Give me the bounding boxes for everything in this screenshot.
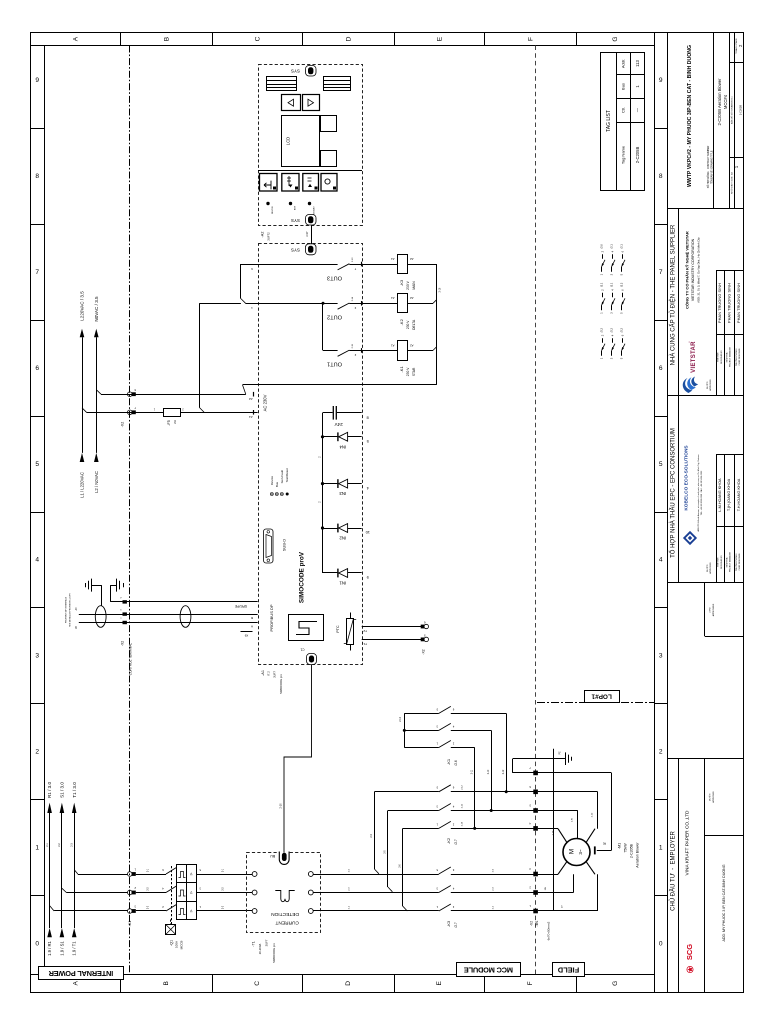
svg-text:A: A <box>73 981 80 986</box>
circuit breaker Q1 trip units <box>162 865 201 920</box>
title block drawing title <box>717 78 728 126</box>
svg-text:/2.2: /2.2 <box>620 282 624 287</box>
label A2 <box>261 232 271 241</box>
motor M1 <box>558 829 595 875</box>
svg-text:113: 113 <box>635 59 640 66</box>
svg-text:2-SY: 2-SY <box>306 231 309 237</box>
connector SYS top of A1 <box>291 244 316 255</box>
svg-text:5: 5 <box>35 461 39 468</box>
thermistor PTC <box>336 613 356 651</box>
svg-text:-M1: -M1 <box>618 843 622 849</box>
employer address <box>722 864 726 941</box>
svg-text:A2: A2 <box>249 397 253 401</box>
svg-text:/7.2: /7.2 <box>267 671 271 676</box>
svg-text:7: 7 <box>659 269 663 276</box>
svg-text:2-10: 2-10 <box>553 830 555 835</box>
svg-text:1: 1 <box>659 844 663 851</box>
svg-text:G: G <box>612 981 619 986</box>
motor M1 labels <box>618 842 640 868</box>
svg-text:-K1: -K1 <box>399 366 404 373</box>
svg-text:L220VAC / 3.5: L220VAC / 3.5 <box>80 291 85 321</box>
control supply L220VAC arrow to 3.5 <box>80 291 85 338</box>
svg-text:CHỦ ĐẦU TƯ - EMPLOYER: CHỦ ĐẦU TƯ - EMPLOYER <box>669 830 676 910</box>
svg-text:3UF7: 3UF7 <box>265 939 269 946</box>
side border number bands 9-0 <box>31 77 668 947</box>
wire T1 tap to X1 <box>74 870 127 875</box>
wire U1 V1 W1 to motor <box>538 874 598 911</box>
wire PROFIBUS B <box>75 607 258 620</box>
svg-text:M: M <box>569 849 576 854</box>
svg-text:2-13: 2-13 <box>352 257 354 262</box>
svg-text:A2: A2 <box>410 296 414 300</box>
svg-text:T.(H.)OANG KHOA: T.(H.)OANG KHOA <box>727 478 731 511</box>
svg-text:APPROVED: APPROVED <box>709 379 712 391</box>
svg-text:9: 9 <box>659 77 663 84</box>
svg-text:SUB-D: SUB-D <box>282 539 287 551</box>
svg-text:F: F <box>527 37 534 41</box>
svg-text:2-C205B: 2-C205B <box>738 105 742 116</box>
wires Q1 to current transformer <box>197 868 253 910</box>
label profibus interface note <box>65 593 72 627</box>
circuit breaker Q1 contacts <box>166 866 176 924</box>
svg-text:INTERNAL POWER: INTERNAL POWER <box>48 969 113 978</box>
svg-text:PHAN TRUONG SINH: PHAN TRUONG SINH <box>736 283 741 323</box>
svg-text:Device: Device <box>270 476 274 486</box>
svg-text:1.9 / R1: 1.9 / R1 <box>47 941 52 956</box>
svg-text:T1: T1 <box>363 642 367 646</box>
svg-text:A1: A1 <box>391 296 395 300</box>
svg-text:230 V: 230 V <box>406 367 410 376</box>
svg-text:DUYỆT /: DUYỆT / <box>706 564 709 572</box>
wire OUT common feed <box>199 264 332 304</box>
svg-text:I>: I> <box>189 909 193 912</box>
svg-text:CURRENT: CURRENT <box>275 919 299 925</box>
svg-text:8: 8 <box>35 173 39 180</box>
svg-text:KIỂM TRA /: KIỂM TRA / <box>725 556 728 567</box>
svg-text:0: 0 <box>659 940 663 947</box>
svg-text:TRƯỞNG PHÒNG /: TRƯỞNG PHÒNG / <box>735 553 738 572</box>
svg-text:DUYỆT /: DUYỆT / <box>709 793 712 801</box>
bus T1 off-sheet arrow up <box>72 782 77 813</box>
wire PE to earth <box>513 751 612 773</box>
svg-text:AC 230V: AC 230V <box>262 394 267 411</box>
MCC MODULE label <box>457 963 521 977</box>
SIMOCODE basic unit A1 box <box>259 244 363 665</box>
svg-text:-Q1: -Q1 <box>169 940 173 946</box>
svg-text:SYS: SYS <box>291 68 300 73</box>
svg-text:2-14: 2-14 <box>400 716 402 721</box>
svg-text:PROFIBUS DP: PROFIBUS DP <box>269 604 274 631</box>
svg-text:A1: A1 <box>391 257 395 261</box>
control supply N0VAC arrow to 3.5 <box>94 296 99 337</box>
svg-text:A1: A1 <box>249 415 253 419</box>
relay contact OUT3 <box>241 257 398 280</box>
svg-text:MCC#4: MCC#4 <box>723 94 728 109</box>
svg-text:2: 2 <box>659 748 663 755</box>
svg-text:G: G <box>612 36 619 41</box>
svg-text:B: B <box>163 36 170 41</box>
wire motor PE lead <box>595 773 612 855</box>
svg-text:/2.1: /2.1 <box>610 282 614 287</box>
wire N0VAC drop <box>96 337 101 453</box>
svg-text:DELTA: DELTA <box>412 319 416 330</box>
svg-text:-K2: -K2 <box>446 837 451 844</box>
svg-text:A2: A2 <box>410 343 414 347</box>
svg-text:VINA KRAFT PAPER CO.,LTD: VINA KRAFT PAPER CO.,LTD <box>684 810 690 876</box>
svg-text:TỔ HỢP NHÀ THẦU EPC - EPC CONS: TỔ HỢP NHÀ THẦU EPC - EPC CONSORTIUM <box>669 428 676 558</box>
svg-text:C1: C1 <box>300 648 304 652</box>
svg-text:75kW: 75kW <box>623 843 627 853</box>
svg-text:/2.2: /2.2 <box>620 327 624 332</box>
EPC name titles <box>706 551 741 573</box>
svg-text:A: A <box>251 625 253 629</box>
svg-text:C: C <box>254 981 261 986</box>
terminal block X2 field motor <box>529 766 551 940</box>
svg-text:DESIGNED BY: DESIGNED BY <box>721 555 723 569</box>
terminal block X1 <box>128 868 137 927</box>
svg-text:24V: 24V <box>334 422 343 427</box>
svg-text:THIẾT KẾ /: THIẾT KẾ / <box>717 557 720 568</box>
contactor coil K3 <box>391 255 416 290</box>
svg-text:3: 3 <box>35 653 39 660</box>
terminal block X2 thermistor <box>421 621 429 655</box>
relay contact OUT1 <box>323 303 399 366</box>
wire PROFIBUS shield SPE/PE <box>111 602 258 608</box>
connector BU on T1 <box>270 852 289 865</box>
wire labels on bus verticals <box>46 843 74 847</box>
svg-text:DEVICE: DEVICE <box>272 206 274 214</box>
svg-text:VIETSTAR: VIETSTAR <box>691 341 697 373</box>
svg-text:0: 0 <box>35 940 39 947</box>
svg-text:1.9 / T1: 1.9 / T1 <box>72 941 77 956</box>
svg-text:F: F <box>527 981 534 985</box>
svg-text:FIELD: FIELD <box>557 965 579 974</box>
terminal block X2 control <box>120 388 136 427</box>
wire fuse to A1 terminal <box>180 412 258 414</box>
wire motor cable run <box>553 749 555 911</box>
earth symbol field PE <box>566 752 572 765</box>
VINA KRAFT text <box>684 810 690 876</box>
terminal A1 of A1 <box>249 410 254 419</box>
svg-text:IN4: IN4 <box>339 444 346 449</box>
svg-text:APPROVED: APPROVED <box>709 562 712 574</box>
svg-text:2-10: 2-10 <box>488 769 490 774</box>
svg-text:-K3: -K3 <box>446 920 451 927</box>
svg-text:D: D <box>345 36 352 41</box>
LOP#1 label <box>585 691 620 703</box>
svg-text:2-P/D: 2-P/D <box>710 607 712 613</box>
contactor K2 main contacts <box>371 785 534 911</box>
title block project name <box>687 45 693 187</box>
control supply L2 source arrow <box>94 453 99 493</box>
svg-text:2-10: 2-10 <box>280 803 283 809</box>
svg-text:C: C <box>254 36 261 41</box>
WETSTAR logo <box>683 341 698 393</box>
svg-text:1: 1 <box>35 844 39 851</box>
bus R1 source arrow <box>47 928 52 956</box>
svg-text:T.H.HOANG KHOA: T.H.HOANG KHOA <box>737 478 741 511</box>
diode input IN2 <box>321 524 370 541</box>
MCC/FIELD boundary dashed line <box>535 46 537 975</box>
svg-text:6: 6 <box>659 365 663 372</box>
svg-text:D: D <box>345 981 352 986</box>
svg-text:1.9 / S1: 1.9 / S1 <box>59 941 64 956</box>
wire N to A2 terminal <box>101 394 246 396</box>
diode input IN1 <box>323 569 369 586</box>
svg-text:4: 4 <box>659 557 663 564</box>
svg-text:2-14: 2-14 <box>352 296 354 301</box>
svg-text:SPE/PE: SPE/PE <box>234 604 247 608</box>
svg-text:IN2: IN2 <box>339 535 346 540</box>
svg-text:/2.6: /2.6 <box>454 760 458 766</box>
svg-text:BU: BU <box>270 854 275 858</box>
svg-text:ADD: MY PHUOC 3 IP, BEN CAT-BI: ADD: MY PHUOC 3 IP, BEN CAT-BINH DUONG <box>722 864 726 941</box>
svg-text:R1 / 3.0: R1 / 3.0 <box>47 782 52 799</box>
svg-text:6x70+50mm2: 6x70+50mm2 <box>547 921 551 940</box>
label X9 connector <box>241 632 253 638</box>
svg-text:SIMOCODE pro: SIMOCODE pro <box>279 674 283 694</box>
title block grid <box>667 33 744 993</box>
svg-text:-A1: -A1 <box>261 670 265 676</box>
svg-text:A1: A1 <box>391 343 395 347</box>
contactor K1 main contacts <box>400 706 506 828</box>
svg-text:NHÀ CUNG CẤP TỦ ĐIỆN - THE PAN: NHÀ CUNG CẤP TỦ ĐIỆN - THE PANEL SUPPLIE… <box>668 224 676 365</box>
svg-text:STAR: STAR <box>412 367 416 376</box>
svg-text:-X2: -X2 <box>530 921 534 926</box>
panel side keys <box>321 116 337 167</box>
svg-text:-K3: -K3 <box>399 279 404 286</box>
svg-text:X9: X9 <box>244 634 248 638</box>
svg-text:TRƯỞNG PHÒNG /: TRƯỞNG PHÒNG / <box>735 348 738 367</box>
svg-text:S1 / 3.0: S1 / 3.0 <box>60 782 65 798</box>
wire IN feed bus <box>322 413 324 573</box>
svg-text:BUS: BUS <box>294 205 296 210</box>
svg-text:KHỔ GIẤY / SIZE: A3: KHỔ GIẤY / SIZE: A3 <box>730 171 733 193</box>
svg-text:/2.2: /2.2 <box>600 327 604 332</box>
svg-text:7: 7 <box>35 269 39 276</box>
PROFIBUS pulse symbol <box>289 615 324 641</box>
label SIMOCODE proV <box>299 551 306 603</box>
contact reference table K2 <box>600 282 625 314</box>
svg-text:/2.2: /2.2 <box>610 327 614 332</box>
breaker Q1 operator <box>166 920 184 950</box>
svg-text:T1 / 3.0: T1 / 3.0 <box>72 782 77 798</box>
svg-text:Gen.Fault: Gen.Fault <box>280 470 284 483</box>
terminal block X2 profibus <box>120 596 133 675</box>
svg-text:LOP#1: LOP#1 <box>591 693 612 700</box>
svg-text:MCCB: MCCB <box>180 941 184 950</box>
svg-text:SEE DETAIL AT PROFIBUS LOOPS: SEE DETAIL AT PROFIBUS LOOPS <box>69 593 72 627</box>
svg-text:SỐ HỢP ĐỒNG: CONTRACT NUMBER: SỐ HỢP ĐỒNG: CONTRACT NUMBER <box>707 145 710 188</box>
svg-text:2-C205B Aeration Blower: 2-C205B Aeration Blower <box>717 78 722 126</box>
contact reference table K1 <box>600 327 625 359</box>
wire L riser to OUT commons <box>199 303 204 412</box>
label PROFIBUS DP <box>269 604 274 631</box>
svg-text:2-12: 2-12 <box>503 769 505 774</box>
svg-text:-T1: -T1 <box>251 941 255 947</box>
operator panel A2 box <box>259 65 363 226</box>
wire BU to C1 measuring cable <box>280 665 312 853</box>
connector SUB-D <box>264 529 287 563</box>
svg-text:IN1: IN1 <box>339 580 346 585</box>
svg-text:ADD: 31, St. 5, Ward 7, Go Vap: ADD: 31, St. 5, Ward 7, Go Vap Dist., Ho… <box>697 237 701 303</box>
svg-text:-X2: -X2 <box>421 649 425 654</box>
svg-text:Addr.: Addr. <box>621 59 626 68</box>
panel supplier names <box>717 283 741 323</box>
SCG logo <box>685 944 694 973</box>
svg-text:DETECTION: DETECTION <box>271 911 299 917</box>
terminal A2 of A1 <box>249 392 254 401</box>
panel supplier name titles <box>706 346 741 390</box>
top border letter band A-G <box>73 33 619 993</box>
svg-text:T2: T2 <box>363 629 367 633</box>
svg-text:KIỂM TRA /: KIỂM TRA / <box>725 351 728 362</box>
svg-text:DESIGNED BY: DESIGNED BY <box>721 350 723 364</box>
svg-text:2-12: 2-12 <box>462 785 464 790</box>
svg-text:2: 2 <box>35 748 39 755</box>
svg-text:CONTROL TERMINAL: CONTROL TERMINAL <box>129 643 133 676</box>
svg-text:PE: PE <box>558 751 561 755</box>
svg-text:6: 6 <box>35 365 39 372</box>
panel supplier section header <box>668 224 676 365</box>
connector C1 bottom of A1 <box>300 648 316 665</box>
svg-text:-A2: -A2 <box>261 232 265 238</box>
KOBELCO ECO-SOLUTIONS logo <box>683 445 703 546</box>
panel buttons up down <box>282 95 320 111</box>
svg-text:230 V: 230 V <box>406 320 410 329</box>
INTERNAL POWER label <box>39 967 124 980</box>
svg-text:Bus: Bus <box>621 83 626 90</box>
panel button row <box>258 171 362 192</box>
earth symbol PE wire <box>111 579 124 602</box>
svg-text:SIMOCODE pro: SIMOCODE pro <box>272 943 276 963</box>
svg-text:E: E <box>436 981 443 986</box>
svg-text:2-15: 2-15 <box>352 343 354 348</box>
svg-text:N0VAC / 3.5: N0VAC / 3.5 <box>94 296 99 322</box>
cable shield symbols <box>95 606 191 628</box>
control terminal chain line <box>129 46 131 975</box>
diode input IN3 <box>321 479 369 496</box>
title block right small cells <box>730 37 743 193</box>
svg-text:8: 8 <box>659 173 663 180</box>
relay contact OUT2 <box>246 296 398 319</box>
svg-text:A2: A2 <box>410 257 414 261</box>
svg-text:PTC: PTC <box>336 625 340 633</box>
wire coil A2 chain <box>243 264 442 394</box>
svg-text:2-16: 2-16 <box>439 287 441 292</box>
svg-text:ADD:355 Hillside Avenue, at re: ADD:355 Hillside Avenue, at reception 1 … <box>697 454 700 531</box>
svg-text:SCG: SCG <box>685 944 694 960</box>
svg-text:SYS: SYS <box>291 218 300 223</box>
wire L to fuse <box>87 407 164 412</box>
svg-text:B: B <box>251 616 253 620</box>
employer section header <box>669 830 676 910</box>
wire SYS link cable <box>306 226 312 244</box>
svg-text:SYS: SYS <box>291 247 300 252</box>
wire R1 tap to X1 <box>50 906 128 911</box>
middle small cell text <box>710 603 716 616</box>
diode input IN4 <box>321 432 369 449</box>
svg-text:PE: PE <box>603 841 607 844</box>
svg-text:-K2: -K2 <box>399 318 404 325</box>
panel vent slots <box>267 77 352 91</box>
svg-text:3UF72: 3UF72 <box>266 232 270 241</box>
svg-text:Test/Reset: Test/Reset <box>285 468 289 482</box>
svg-text:-X1: -X1 <box>128 921 132 927</box>
svg-text:KOBELCO ECO-SOLUTIONS: KOBELCO ECO-SOLUTIONS <box>683 445 689 511</box>
wire bus S1 vertical <box>61 813 63 928</box>
24V supply row <box>323 406 369 427</box>
svg-text:3UF7: 3UF7 <box>273 671 277 678</box>
contactor K3 main contacts <box>313 867 534 928</box>
svg-text:APPROVED: APPROVED <box>712 791 715 803</box>
current detection module T1 box <box>247 853 321 933</box>
svg-text:PROJECT MANAGER: PROJECT MANAGER <box>729 346 732 367</box>
svg-text:-X2: -X2 <box>120 641 124 646</box>
svg-text:APPROVERS: APPROVERS <box>712 603 715 616</box>
control supply L1 source arrow <box>80 453 85 498</box>
svg-text:THIẾT KẾ /: THIẾT KẾ / <box>717 352 720 363</box>
svg-text:2-11: 2-11 <box>471 769 473 774</box>
wire bus labels <box>318 456 321 503</box>
svg-text:/2.1: /2.1 <box>610 244 614 249</box>
svg-text:2-C205B: 2-C205B <box>635 147 640 164</box>
wire T2 to X2 <box>362 627 423 634</box>
svg-text:10: 10 <box>365 530 370 535</box>
svg-text:-K1: -K1 <box>446 758 451 765</box>
svg-text:E: E <box>436 36 443 41</box>
module T1 labels <box>251 939 276 963</box>
bus S1 off-sheet arrow up <box>60 782 65 813</box>
svg-text:MAIN: MAIN <box>412 281 416 290</box>
panel status LEDs <box>266 202 315 218</box>
svg-text:OUT1: OUT1 <box>327 361 342 367</box>
svg-text:PHAN TRUONG SINH: PHAN TRUONG SINH <box>726 283 731 323</box>
title block contract number labels <box>707 145 713 188</box>
employer approver cell <box>709 791 716 803</box>
svg-text:3~: 3~ <box>578 849 583 855</box>
svg-text:PROJECT MANAGER: PROJECT MANAGER <box>729 551 732 572</box>
LOP#1 boundary chain line <box>537 702 654 704</box>
svg-text:4: 4 <box>35 557 39 564</box>
tag list table <box>601 53 645 191</box>
label A1 <box>261 670 283 694</box>
svg-text:SIMOCODE proV: SIMOCODE proV <box>299 551 306 603</box>
schematic inner border <box>31 33 668 993</box>
svg-text:-F5: -F5 <box>167 420 171 426</box>
svg-text:OUT2: OUT2 <box>327 314 342 320</box>
svg-text:3: 3 <box>659 653 663 660</box>
svg-text:2-12: 2-12 <box>591 812 593 817</box>
svg-text:230 V: 230 V <box>406 280 410 289</box>
VIETSTAR company text <box>685 231 701 309</box>
panel LCD display <box>282 116 320 167</box>
bus T1 source arrow <box>72 928 77 956</box>
contact reference table K3 <box>600 244 625 276</box>
svg-text:A: A <box>73 36 80 41</box>
contactor coil K1 <box>391 341 416 377</box>
svg-text:VIETSTAR INDUSTRY CORPORATION: VIETSTAR INDUSTRY CORPORATION <box>691 238 695 301</box>
svg-text:20-200A: 20-200A <box>258 944 262 955</box>
svg-text:-W1: -W1 <box>535 920 539 926</box>
svg-text:TAG LIST: TAG LIST <box>606 110 612 132</box>
wire T1 to X2 <box>362 640 423 647</box>
EPC names <box>718 478 741 512</box>
wire bus T1 vertical <box>74 813 76 928</box>
wire bus R1 vertical <box>49 813 51 928</box>
svg-text:WWTP VKPC#2 - MY PHUOC 3IP-BEN: WWTP VKPC#2 - MY PHUOC 3IP-BEN CAT - BIN… <box>687 45 693 187</box>
svg-text:IN3: IN3 <box>339 491 346 496</box>
